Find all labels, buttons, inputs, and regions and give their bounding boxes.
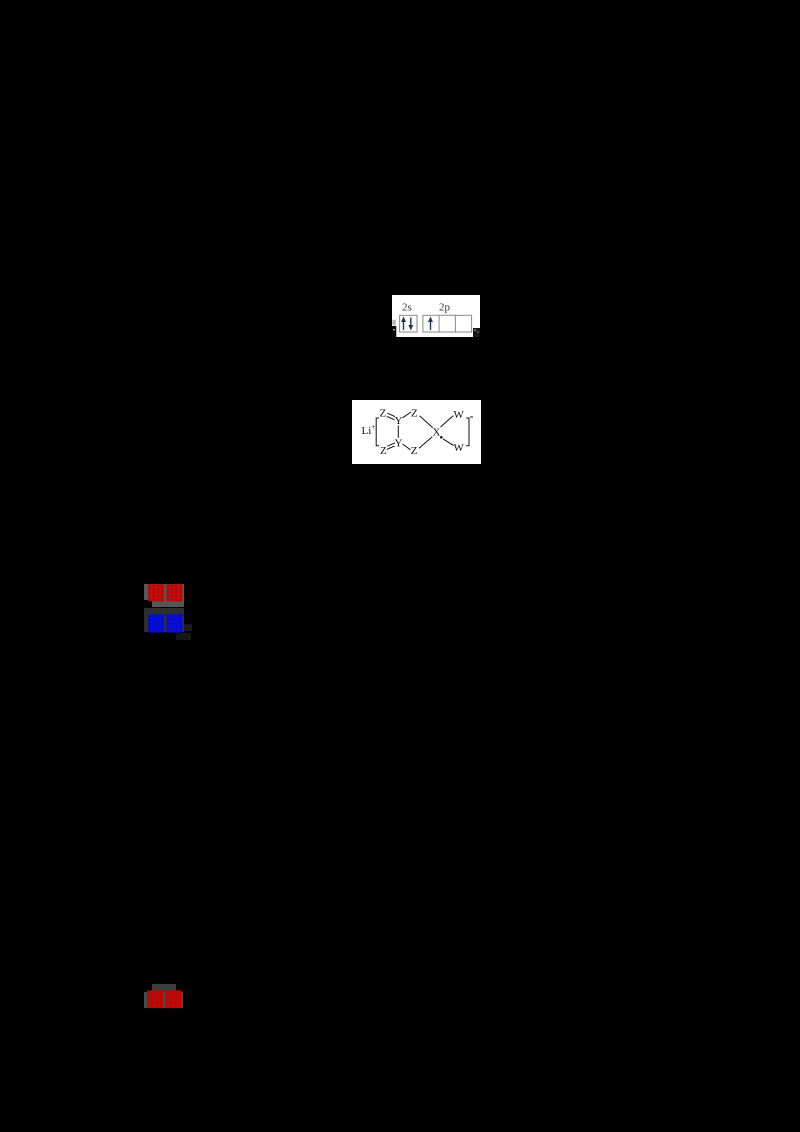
bond X-W upper <box>440 415 453 426</box>
svg-text:Z: Z <box>379 407 386 419</box>
up arrow in 2s <box>401 317 406 331</box>
red answer characters <box>148 584 184 603</box>
2p orbital boxes <box>423 315 472 332</box>
gray highlight behind red answer label <box>144 584 184 600</box>
svg-text:+: + <box>371 423 375 431</box>
double bond Z=Y <box>387 413 395 416</box>
svg-text:Z: Z <box>410 445 417 457</box>
black text fragment clipped at bottom-left corner <box>392 326 396 337</box>
bond Y-Z down-right <box>402 444 410 450</box>
gray highlight behind lower red answer label <box>152 984 176 992</box>
long bond Z-X upper <box>419 415 432 427</box>
svg-text:Y: Y <box>394 437 402 449</box>
Lewis structure white panel <box>352 400 481 464</box>
bond Y-Z up-right <box>402 412 411 418</box>
up arrow in first 2p box <box>428 317 433 331</box>
svg-text:X: X <box>432 426 440 438</box>
black text fragment clipped at bottom-right corner <box>473 328 480 337</box>
svg-text:2s: 2s <box>402 301 412 313</box>
lower red answer characters <box>147 990 183 1009</box>
svg-text:2p: 2p <box>439 301 451 313</box>
svg-text:Z: Z <box>411 407 418 419</box>
superscript minus charge <box>470 416 473 418</box>
svg-text:Li: Li <box>361 425 371 437</box>
double bond Z=Y lower <box>387 442 395 445</box>
vertical bond Y-Y <box>397 425 399 437</box>
svg-text:Y: Y <box>394 415 402 427</box>
right bracket <box>466 418 469 446</box>
bond X-W lower <box>443 438 454 445</box>
gray highlight behind blue analysis label <box>144 608 184 632</box>
long bond Z-X lower <box>419 436 432 447</box>
svg-text:W: W <box>453 442 464 454</box>
left bracket <box>376 418 379 446</box>
down arrow in 2s <box>408 318 413 331</box>
orbital diagram white panel (2s / 2p electron boxes) <box>392 295 480 337</box>
blue analysis characters <box>148 614 184 634</box>
2s orbital box <box>400 315 417 332</box>
svg-text:W: W <box>453 409 464 421</box>
svg-text:Z: Z <box>380 444 387 456</box>
radical dot on X <box>440 436 443 439</box>
